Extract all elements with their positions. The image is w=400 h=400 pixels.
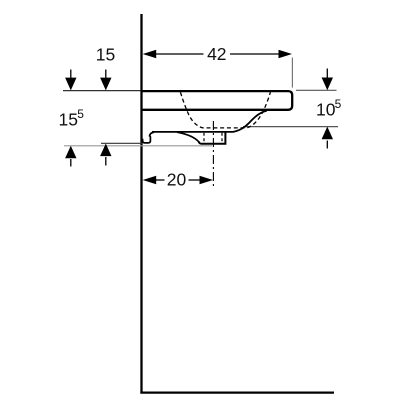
outer underside flat line bbox=[152, 131, 234, 133]
dimension 15 (chain x=105.8) bbox=[105, 70, 107, 80]
centerline bbox=[212, 121, 214, 186]
extension line hook bottom (15 chain) bbox=[101, 142, 142, 144]
drain boss bbox=[199, 132, 226, 144]
dimension 15-5 (chain x=70.8) bbox=[70, 70, 72, 80]
extension line top-left (15/15-5 chains) bbox=[63, 90, 141, 92]
svg-text:10: 10 bbox=[316, 99, 336, 119]
front apron curve bbox=[177, 132, 199, 142]
drain hidden edges (dashed) bbox=[203, 133, 205, 144]
extension line slab top right (10-5 chain) bbox=[296, 89, 337, 91]
inner bowl (hidden, dashed) bbox=[180, 92, 270, 128]
svg-text:5: 5 bbox=[335, 97, 342, 111]
wall bbox=[140, 14, 142, 394]
extension line boss bottom (15-5 chain) bbox=[64, 145, 212, 147]
svg-text:5: 5 bbox=[77, 107, 84, 121]
floor bbox=[140, 391, 334, 393]
svg-text:20: 20 bbox=[167, 170, 187, 190]
svg-text:15: 15 bbox=[59, 109, 78, 129]
wall hook / mounting pocket bbox=[143, 136, 151, 143]
dimension 20 bbox=[156, 179, 201, 181]
basin rim slab bbox=[142, 91, 293, 110]
dimension 10-5 (chain x=327.3) bbox=[326, 69, 328, 79]
extension line front lip right (10-5 chain) bbox=[243, 126, 338, 128]
svg-text:15: 15 bbox=[96, 44, 115, 64]
dimension 42 bbox=[156, 53, 280, 55]
extension line slab right edge up (42 chain) bbox=[291, 58, 293, 88]
svg-text:42: 42 bbox=[207, 44, 226, 64]
right outer bowl curve bbox=[233, 111, 267, 132]
